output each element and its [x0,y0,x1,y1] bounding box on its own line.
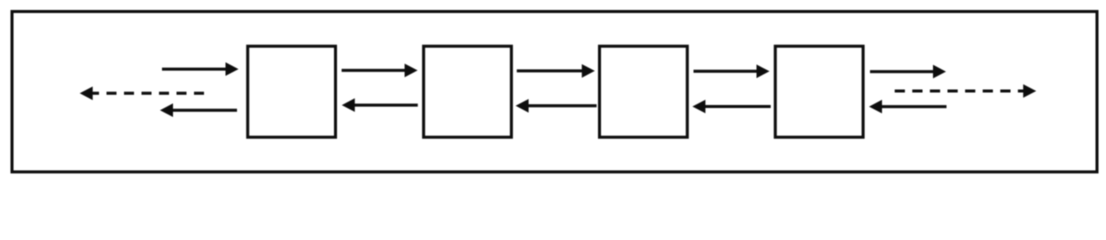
box 1 [248,46,336,137]
solid arrow pointing right into box 1 [162,62,239,76]
solid arrow pointing right out of box 4 [870,65,946,79]
box 4 [775,46,863,137]
solid arrow pointing left into box 4 [869,100,947,114]
solid arrow pointing right box3 to box4 [694,65,770,79]
box 2 [424,46,512,137]
dashed arrow pointing right (far right) [895,84,1036,98]
solid arrow pointing right box2 to box3 [517,64,595,78]
solid arrow pointing left out of box 1 [160,103,237,117]
solid arrow pointing right box1 to box2 [342,64,418,78]
solid arrow pointing left box2 to box1 [342,98,418,112]
solid arrow pointing left box3 to box2 [516,99,597,113]
outer border [12,12,1097,172]
solid arrow pointing left box4 to box3 [692,100,770,114]
dashed arrow pointing left (far left) [80,87,204,101]
box 3 [600,46,688,137]
